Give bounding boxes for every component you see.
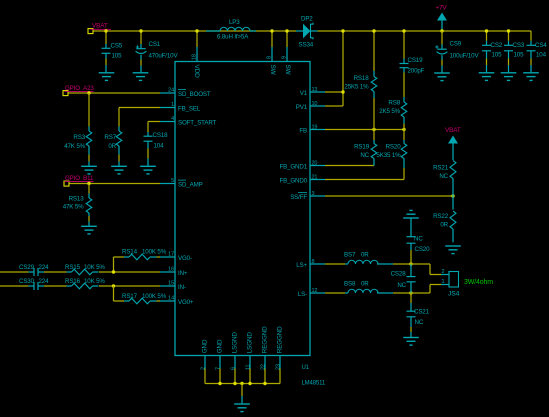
pin REGGND 23: [275, 326, 283, 384]
resistor RS18: [344, 29, 376, 129]
svg-text:24: 24: [168, 88, 174, 94]
svg-text:VG0-: VG0-: [178, 255, 192, 262]
inductor BS8: [325, 281, 411, 294]
resistor RS17: [114, 293, 167, 304]
node GPIO_A23 pin square: [63, 91, 68, 96]
svg-text:CS29: CS29: [19, 264, 35, 271]
ground CS1: [133, 72, 149, 74]
resistor RS20: [376, 130, 406, 180]
wire PV1: [325, 105, 343, 107]
svg-text:17: 17: [168, 252, 174, 258]
svg-text:CS18: CS18: [153, 132, 169, 139]
svg-text:104: 104: [154, 143, 165, 150]
pin VDD 18: [191, 47, 200, 78]
resistor RS7: [104, 127, 121, 166]
svg-text:LM48511: LM48511: [302, 381, 326, 387]
pin LSGND 11: [245, 332, 253, 384]
svg-text:CS4: CS4: [535, 42, 547, 49]
svg-text:CS9: CS9: [450, 41, 462, 48]
ground CS5: [99, 72, 115, 74]
resistor RS19: [354, 130, 377, 166]
svg-text:CS3: CS3: [513, 42, 525, 49]
svg-text:U1: U1: [302, 365, 310, 371]
svg-text:CS21: CS21: [414, 309, 430, 316]
wire V1: [325, 91, 343, 93]
resistor RS21: [433, 161, 456, 197]
svg-text:BS8: BS8: [344, 281, 356, 288]
svg-text:NC: NC: [397, 282, 406, 289]
svg-text:RS22: RS22: [433, 213, 449, 220]
resistor RS16: [65, 278, 105, 289]
resistor RS14: [114, 249, 167, 260]
resistor RS8: [379, 73, 407, 130]
svg-text:RS21: RS21: [433, 165, 449, 172]
capacitor CS4: [527, 31, 548, 72]
svg-text:1: 1: [171, 102, 174, 108]
pin GND 7: [215, 339, 223, 383]
svg-text:105: 105: [492, 52, 503, 59]
capacitor CS20: [407, 218, 431, 264]
pin IN+ 16: [160, 267, 188, 278]
pin PV1 10: [296, 101, 325, 111]
svg-text:4: 4: [171, 116, 174, 122]
wire SW1 stem: [270, 29, 273, 47]
pin LS- 12: [298, 288, 325, 298]
svg-text:0R: 0R: [108, 143, 116, 150]
svg-text:200pF: 200pF: [408, 68, 425, 75]
svg-text:RS15: RS15: [65, 264, 81, 271]
pin V1 13: [300, 87, 325, 97]
svg-text:5K35 1%: 5K35 1%: [376, 152, 401, 159]
pin FB 19: [299, 124, 325, 134]
svg-text:FB_GND0: FB_GND0: [280, 178, 308, 185]
wire CS1 stem: [139, 29, 142, 44]
svg-text:NC: NC: [415, 319, 424, 326]
svg-text:REGGND: REGGND: [277, 326, 284, 353]
svg-text:VG0+: VG0+: [178, 299, 194, 306]
resistor RS22: [433, 196, 456, 242]
wire SOFT_START: [148, 122, 160, 133]
svg-text:19: 19: [312, 124, 318, 130]
svg-text:SS34: SS34: [299, 42, 314, 49]
node IN- junction: [112, 284, 115, 287]
pin LSGND 6: [230, 332, 238, 384]
svg-text:3: 3: [312, 191, 315, 197]
svg-text:VBAT: VBAT: [92, 23, 108, 30]
resistor RS13: [63, 184, 92, 226]
svg-text:DP2: DP2: [301, 16, 313, 23]
svg-text:VBAT: VBAT: [445, 127, 461, 134]
svg-text:20: 20: [312, 160, 318, 166]
wire GPIO_B11: [69, 183, 160, 185]
capacitor CS19: [400, 29, 425, 74]
svg-text:105: 105: [112, 53, 123, 60]
svg-text:LP3: LP3: [229, 19, 240, 26]
wire bottom GND bus: [205, 382, 280, 385]
svg-text:13: 13: [312, 87, 318, 93]
ground RS22: [445, 245, 461, 247]
capacitor CS29: [19, 264, 49, 276]
svg-text:47K 5%: 47K 5%: [63, 204, 84, 211]
capacitor CS28: [391, 264, 416, 293]
pin GND 2: [200, 339, 208, 383]
pin SW 8: [267, 47, 276, 76]
wire SW2 stem: [285, 29, 288, 47]
svg-text:RS8: RS8: [388, 100, 400, 107]
capacitor CS5: [102, 43, 123, 73]
ground RS3: [81, 165, 97, 167]
resistor RS15: [65, 264, 105, 275]
inductor LP3: [206, 19, 256, 41]
svg-text:IN-: IN-: [178, 284, 186, 291]
node GPIO_B11 pin square: [64, 181, 69, 186]
svg-text:5: 5: [171, 178, 174, 184]
pin SD_AMP 5: [160, 178, 203, 189]
svg-text:8: 8: [312, 259, 315, 265]
svg-text:NC: NC: [439, 173, 448, 180]
svg-text:CS30: CS30: [19, 278, 35, 285]
wire IN- line: [0, 285, 160, 287]
ground CS2: [479, 72, 495, 74]
ground CS4: [523, 72, 539, 74]
pin SOFT_START 4: [160, 116, 217, 127]
wire CS5 stem: [104, 29, 107, 44]
ground CS3: [501, 72, 517, 74]
svg-text:104: 104: [536, 52, 547, 59]
ground CS9: [434, 72, 450, 74]
wire LS- to JS4: [411, 285, 441, 294]
svg-text:+7V: +7V: [436, 5, 448, 12]
wire FB_GND1: [325, 165, 374, 167]
pin FB_SEL 1: [160, 102, 201, 113]
svg-text:CS28: CS28: [391, 270, 407, 277]
wire VDD stem: [195, 29, 198, 47]
svg-text:470uF/10V: 470uF/10V: [149, 53, 179, 60]
pin REGGND 22: [260, 326, 268, 384]
svg-text:2: 2: [442, 269, 445, 275]
wire V1 rail drop: [341, 29, 344, 106]
svg-text:GND: GND: [217, 339, 224, 353]
svg-text:47K 5%: 47K 5%: [64, 143, 85, 150]
svg-text:18: 18: [191, 54, 197, 60]
svg-text:0R: 0R: [361, 252, 369, 259]
svg-text:SW: SW: [269, 65, 276, 76]
ground RS7: [111, 165, 127, 167]
ground main: [234, 396, 250, 412]
svg-text:PV1: PV1: [296, 104, 308, 111]
node RS13 junction: [87, 182, 90, 185]
svg-text:0R: 0R: [361, 281, 369, 288]
svg-text:IN+: IN+: [178, 270, 188, 277]
wire RS14 to IN+: [113, 257, 115, 272]
svg-text:6.8uH If>5A: 6.8uH If>5A: [217, 34, 249, 41]
svg-text:FB_GND1: FB_GND1: [280, 164, 308, 171]
svg-text:NC: NC: [414, 235, 423, 242]
net label GPIO_B11: [65, 175, 94, 182]
inductor BS7: [325, 252, 411, 265]
svg-text:CS2: CS2: [491, 42, 503, 49]
pin FB_GND1 20: [280, 160, 326, 170]
svg-text:V1: V1: [300, 90, 308, 97]
wire FB_SEL: [119, 108, 160, 127]
pin VG0+ 14: [160, 296, 194, 307]
ground CS20 top: [403, 217, 419, 219]
wire FB: [325, 128, 406, 131]
pin SS/FF 3: [290, 191, 325, 201]
svg-text:25K5 1%: 25K5 1%: [344, 84, 369, 91]
svg-text:GPIO_B11: GPIO_B11: [65, 175, 94, 182]
svg-text:100uF/10V: 100uF/10V: [450, 53, 480, 60]
op-amp U1 LM48511 body: [175, 62, 310, 356]
svg-text:LSGND: LSGND: [232, 332, 239, 354]
svg-text:RS16: RS16: [65, 278, 81, 285]
svg-text:224: 224: [39, 278, 50, 285]
net label VBAT: [91, 23, 112, 30]
svg-text:15: 15: [168, 281, 174, 287]
svg-text:RS20: RS20: [386, 144, 402, 151]
wire LS+ to JS4: [411, 264, 441, 275]
svg-text:0R: 0R: [440, 222, 448, 229]
pin LS+ 8: [296, 259, 325, 269]
svg-text:RS13: RS13: [69, 196, 85, 203]
node IN+ junction: [112, 270, 115, 273]
svg-text:9: 9: [282, 56, 288, 59]
svg-text:1: 1: [442, 279, 445, 285]
capacitor CS1: [136, 31, 179, 72]
wire SS/FF: [325, 194, 455, 197]
capacitor CS18: [144, 132, 169, 166]
svg-text:RS7: RS7: [104, 134, 116, 141]
svg-text:SW: SW: [284, 65, 291, 76]
svg-text:NC: NC: [360, 152, 369, 159]
net label GPIO_A23: [65, 85, 95, 92]
svg-text:LSGND: LSGND: [247, 332, 254, 354]
ground RS13: [81, 225, 97, 227]
svg-text:JS4: JS4: [448, 291, 460, 298]
svg-text:224: 224: [39, 264, 50, 271]
wire GPIO_A23: [68, 92, 160, 94]
svg-text:2K5 5%: 2K5 5%: [379, 108, 400, 115]
svg-text:CS20: CS20: [415, 246, 431, 253]
svg-text:21: 21: [312, 174, 318, 180]
power +7V: [436, 5, 448, 33]
svg-text:100K 5%: 100K 5%: [142, 249, 167, 256]
svg-text:FB: FB: [299, 128, 307, 135]
svg-text:RS19: RS19: [354, 144, 370, 151]
pin SD_BOOST 24: [160, 88, 211, 99]
svg-text:10K 5%: 10K 5%: [84, 264, 105, 271]
svg-text:SD_BOOST: SD_BOOST: [178, 91, 211, 98]
svg-text:CS1: CS1: [149, 41, 161, 48]
capacitor CS21: [407, 293, 430, 337]
svg-text:CS5: CS5: [111, 43, 123, 50]
pin SW 9: [282, 47, 291, 76]
wire IN+ line: [0, 271, 160, 273]
capacitor CS9: [435, 31, 479, 73]
node VBAT pin square: [88, 29, 93, 34]
resistor RS3: [64, 93, 92, 166]
svg-text:8: 8: [267, 56, 273, 59]
svg-text:BS7: BS7: [344, 252, 356, 259]
capacitor CS3: [504, 29, 525, 72]
ground CS21: [403, 337, 419, 339]
svg-text:LS+: LS+: [296, 262, 307, 269]
node LS- junction: [409, 291, 412, 294]
svg-text:RS17: RS17: [122, 293, 138, 300]
svg-text:CS19: CS19: [408, 57, 424, 64]
capacitor C S1 plus: [136, 45, 139, 48]
node RS3 junction: [87, 91, 90, 94]
wire FB_GND0: [325, 179, 404, 181]
power VBAT right: [445, 127, 461, 160]
svg-text:SOFT_START: SOFT_START: [178, 120, 217, 127]
svg-text:SD_AMP: SD_AMP: [178, 182, 203, 189]
svg-text:SS/FF: SS/FF: [290, 194, 307, 201]
svg-text:GPIO_A23: GPIO_A23: [65, 85, 94, 92]
ground CS18: [140, 165, 156, 167]
wire GND stem: [241, 384, 243, 397]
svg-text:RS3: RS3: [73, 134, 85, 141]
svg-text:RS18: RS18: [354, 75, 370, 82]
svg-text:3W/4ohm: 3W/4ohm: [464, 279, 493, 286]
svg-text:FB_SEL: FB_SEL: [178, 106, 201, 113]
wire VBAT top rail: [93, 30, 531, 32]
diode DP2: [296, 16, 318, 49]
svg-text:10K 5%: 10K 5%: [84, 278, 105, 285]
wire RS17 to IN-: [113, 286, 115, 301]
capacitor CS2: [482, 29, 503, 72]
svg-text:VDD: VDD: [193, 65, 200, 79]
svg-text:100K 5%: 100K 5%: [142, 293, 167, 300]
pin VG0- 17: [160, 252, 192, 263]
svg-text:105: 105: [514, 52, 525, 59]
svg-text:GND: GND: [202, 339, 209, 353]
svg-text:LS-: LS-: [298, 291, 307, 298]
svg-text:10: 10: [312, 101, 318, 107]
svg-text:14: 14: [168, 296, 174, 302]
svg-text:12: 12: [312, 288, 318, 294]
pin FB_GND0 21: [280, 174, 326, 184]
node LS+ junction: [409, 262, 412, 265]
connector JS4: [441, 269, 460, 298]
capacitor CS30: [19, 278, 49, 290]
pin IN- 15: [160, 281, 186, 292]
svg-text:REGGND: REGGND: [262, 326, 269, 353]
svg-text:16: 16: [168, 267, 174, 273]
svg-text:RS14: RS14: [122, 249, 138, 256]
